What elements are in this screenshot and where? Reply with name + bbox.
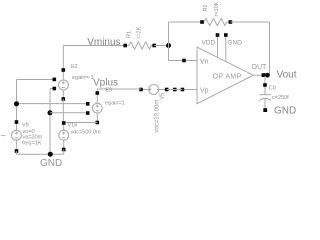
wire E3 bottom to V16 top [64,122,98,124]
resistor R1 [123,26,156,49]
wire V9 vertical [16,80,18,123]
node junction A [166,43,171,48]
vdc source V5 [139,85,176,133]
svg-text:V5: V5 [160,93,166,100]
svg-text:GND: GND [40,158,62,169]
wire gnd ctrl vertical [49,89,51,155]
wire V5 to Vp [167,89,183,91]
svg-text:V16: V16 [68,123,78,129]
wire E2 minus ctrl corner [50,88,53,90]
wire ctrl plus rail top [17,79,53,81]
svg-text:c=250f: c=250f [272,95,289,101]
wire Vplus row [97,88,141,90]
wire feedback vertical [269,22,271,75]
capacitor C0 [259,76,289,112]
wire gnd ctrl to E3 [50,112,86,114]
svg-text:vdc=500.0m: vdc=500.0m [71,130,102,136]
wire feedback to out junction [264,74,270,76]
svg-text:C0: C0 [269,86,276,92]
vcvs E3 [86,88,125,125]
svg-text:r=10K: r=10K [214,1,220,16]
vsin source V9 [1,120,43,153]
node vin junction [14,101,19,106]
svg-text:Vn: Vn [200,59,209,66]
wire R2 row left [169,21,203,23]
svg-text:egain=-1: egain=-1 [72,75,94,81]
wire feedback top [230,21,269,23]
op-amp U1 [181,33,267,104]
svg-text:Vout: Vout [277,70,297,81]
wire vertical junction to R2 row and Vn row [168,22,170,61]
svg-text:E3: E3 [105,88,112,94]
svg-text:Vminus: Vminus [87,37,120,48]
wire E2 top vertical [62,46,64,71]
svg-text:OUT: OUT [252,64,268,71]
svg-text:OP AMP: OP AMP [213,74,242,81]
svg-text:Vp: Vp [200,88,209,95]
svg-text:V9: V9 [22,122,29,128]
svg-text:egain=1: egain=1 [105,101,125,107]
svg-text:freq=1K: freq=1K [22,140,42,146]
svg-text:VDD: VDD [202,40,216,47]
svg-text:r=2K: r=2K [137,26,143,38]
wire Vn [169,60,185,62]
svg-text:GND: GND [274,106,296,117]
svg-text:E2: E2 [71,64,78,70]
wire E3 top stub [96,89,98,93]
svg-text:R2: R2 [203,4,209,11]
wire GND rail [16,153,63,155]
wire Vminus row [63,45,125,47]
node gnd ctrl junction [48,110,53,115]
resistor R2 [200,1,232,25]
wire vin row [17,103,86,105]
node gnd junction [48,152,53,157]
svg-text:~: ~ [1,131,6,141]
vcvs E2 [53,64,94,101]
svg-text:GND: GND [228,40,243,47]
wire E2 bottom down to V16 [62,99,64,122]
vdc source V16 [59,121,101,151]
wire V16 bottom to rail [63,150,65,155]
node out junction [265,73,270,78]
wire R1 to junction [154,45,168,47]
svg-text:vdc=10.00m: vdc=10.00m [155,100,161,133]
wire V9 bottom to rail [15,151,17,154]
svg-text:R1: R1 [127,31,133,38]
